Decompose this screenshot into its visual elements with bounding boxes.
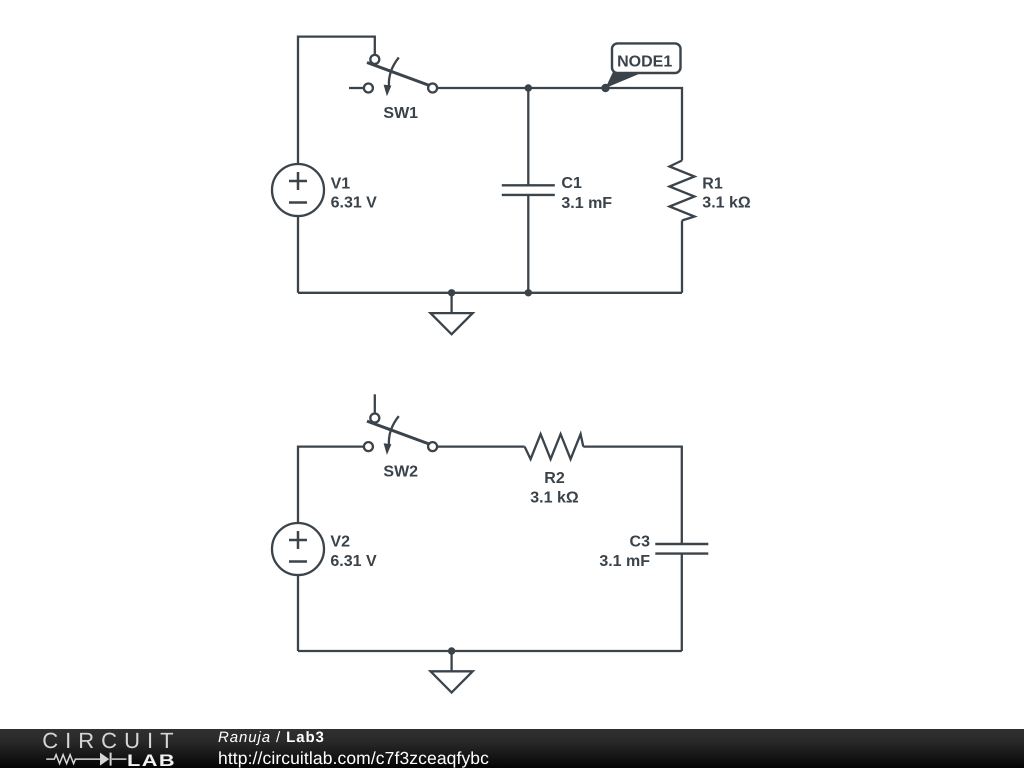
svg-text:3.1 mF: 3.1 mF: [561, 195, 612, 212]
svg-text:C3: C3: [630, 533, 651, 550]
svg-text:R2: R2: [544, 470, 565, 487]
svg-text:SW2: SW2: [383, 463, 418, 480]
voltage source V2: [272, 523, 324, 575]
wire V2 bottom lead: [297, 575, 299, 651]
label C3 value: [599, 533, 650, 570]
wire C3 bottom lead: [681, 554, 683, 651]
label SW1: [383, 105, 418, 122]
node NODE1 dot: [601, 84, 609, 92]
switch SW1: [349, 55, 437, 96]
wire SW2 to R2: [437, 445, 524, 447]
CircuitLab logo symbol row: [42, 748, 182, 768]
voltage source V1: [272, 164, 324, 216]
wire V1 top to SW1 top terminal: [298, 37, 375, 164]
wire V2 top lead: [298, 447, 363, 523]
switch SW2: [364, 394, 437, 455]
svg-text:3.1 kΩ: 3.1 kΩ: [530, 489, 579, 506]
svg-text:R1: R1: [702, 176, 723, 193]
svg-text:V1: V1: [331, 175, 351, 192]
label V1 value: [331, 175, 378, 211]
capacitor C3: [655, 544, 708, 554]
label NODE1: [617, 53, 672, 70]
wire SW1 to C1 junction: [437, 87, 528, 89]
label C1 value: [561, 175, 612, 212]
label SW2: [383, 463, 418, 480]
svg-text:LAB: LAB: [127, 752, 176, 768]
junction dot ground 2: [448, 647, 455, 654]
wire R1 bottom: [681, 221, 683, 293]
net flag NODE1: [606, 43, 681, 88]
wire bottom rail circuit 2: [298, 650, 682, 652]
svg-text:6.31 V: 6.31 V: [331, 195, 378, 212]
resistor R1: [670, 161, 695, 221]
wire C1 junction to NODE1: [528, 87, 605, 89]
wire C1 top lead: [527, 88, 529, 185]
junction dot C1 top: [525, 84, 532, 91]
wire bottom rail circuit 1: [298, 292, 682, 294]
label V2 value: [330, 533, 377, 569]
svg-text:C1: C1: [561, 175, 582, 192]
wire NODE1 to R1 top: [606, 88, 683, 161]
resistor R2: [525, 434, 584, 459]
label R2 value: [530, 470, 579, 507]
svg-text:6.31 V: 6.31 V: [330, 553, 377, 570]
svg-text:NODE1: NODE1: [617, 53, 672, 70]
svg-text:3.1 mF: 3.1 mF: [599, 553, 650, 570]
svg-text:V2: V2: [330, 533, 350, 550]
junction dot C1 bottom: [525, 289, 532, 296]
footer url: [218, 748, 489, 768]
footer title Ranuja / Lab3: [218, 729, 325, 746]
svg-text:SW1: SW1: [383, 105, 418, 122]
label R1 value: [702, 176, 751, 212]
wire R2 to C3 top: [583, 447, 682, 544]
wire C1 bottom lead: [527, 195, 529, 293]
ground GND1: [431, 293, 473, 335]
capacitor C1: [502, 185, 555, 195]
footer bar: [0, 729, 1024, 768]
svg-text:3.1 kΩ: 3.1 kΩ: [702, 195, 751, 212]
wire V1 bottom lead: [297, 216, 299, 293]
junction dot ground 1: [448, 289, 455, 296]
CircuitLab logo word: [42, 728, 180, 754]
ground GND2: [431, 651, 473, 693]
